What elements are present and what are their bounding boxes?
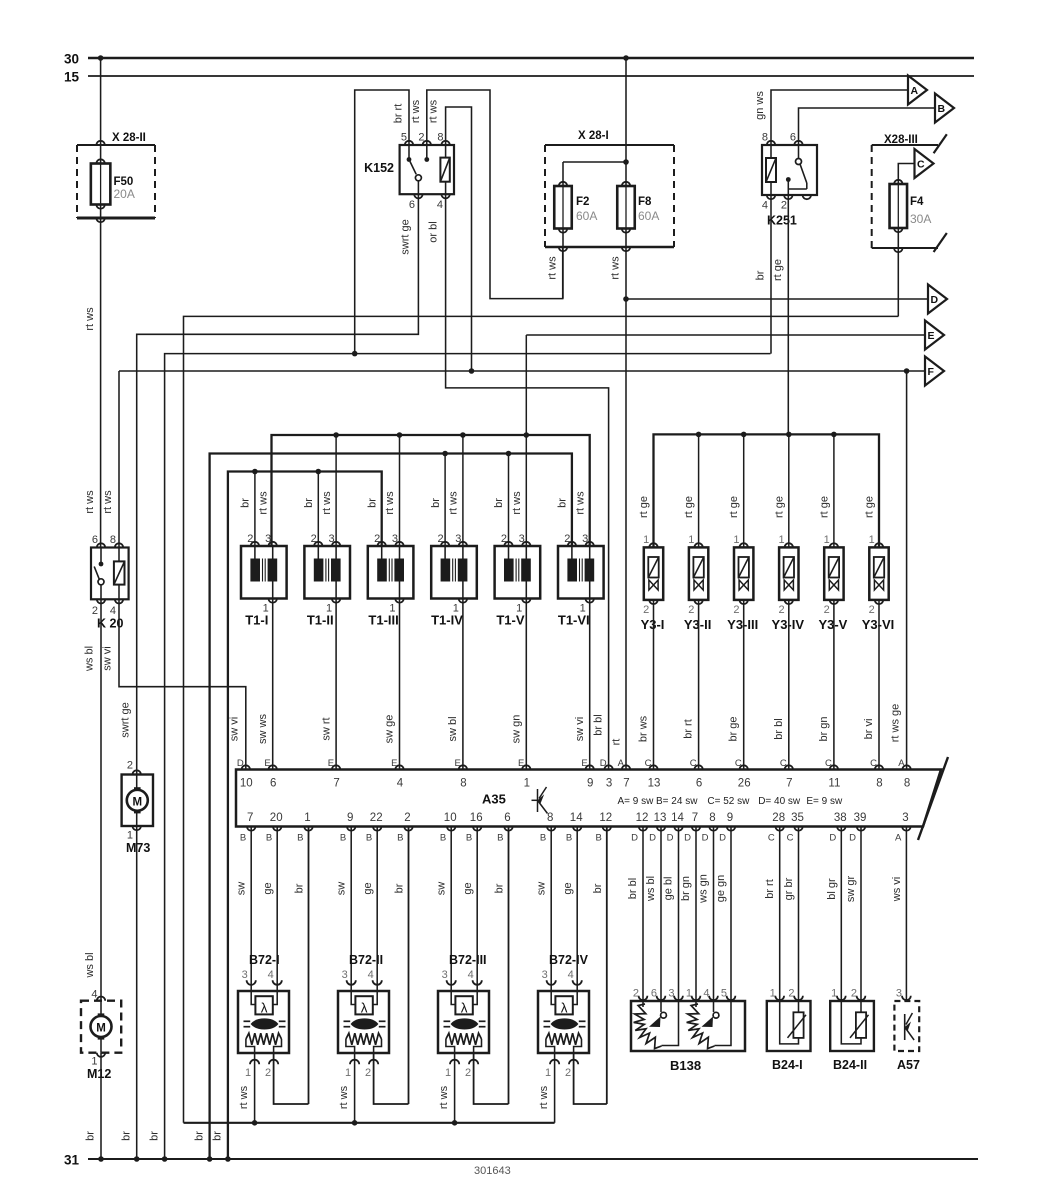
svg-text:1: 1 xyxy=(778,534,784,546)
svg-text:rt ws: rt ws xyxy=(84,490,96,514)
svg-text:br: br xyxy=(194,1131,206,1141)
svg-text:B: B xyxy=(297,833,303,844)
svg-text:20: 20 xyxy=(270,812,283,824)
svg-text:20A: 20A xyxy=(114,187,135,201)
svg-text:3: 3 xyxy=(606,778,612,790)
svg-text:rt ge: rt ge xyxy=(818,496,830,518)
svg-text:13: 13 xyxy=(654,812,667,824)
svg-text:4: 4 xyxy=(368,969,374,981)
svg-text:9: 9 xyxy=(727,812,733,824)
svg-text:ws gn: ws gn xyxy=(698,874,710,904)
svg-text:br: br xyxy=(149,1131,161,1141)
svg-text:T1-V: T1-V xyxy=(496,613,525,628)
svg-text:8: 8 xyxy=(762,132,768,144)
svg-text:E: E xyxy=(581,758,587,769)
svg-text:λ: λ xyxy=(261,1001,268,1016)
svg-text:br gn: br gn xyxy=(680,876,692,901)
svg-text:M12: M12 xyxy=(87,1067,111,1081)
svg-text:br rt: br rt xyxy=(393,104,405,124)
svg-text:2: 2 xyxy=(265,1067,271,1079)
svg-text:sw ge: sw ge xyxy=(384,715,396,744)
svg-text:8: 8 xyxy=(110,534,116,546)
svg-text:A: A xyxy=(895,833,902,844)
svg-text:br: br xyxy=(212,1131,224,1141)
svg-text:2: 2 xyxy=(311,533,317,545)
svg-text:12: 12 xyxy=(599,812,612,824)
svg-text:or bl: or bl xyxy=(428,221,440,242)
svg-text:1: 1 xyxy=(524,778,530,790)
svg-text:E: E xyxy=(391,758,397,769)
svg-text:T1-I: T1-I xyxy=(245,613,268,628)
svg-text:B: B xyxy=(340,833,346,844)
svg-text:2: 2 xyxy=(643,604,649,616)
svg-text:swrt ge: swrt ge xyxy=(120,702,132,737)
svg-text:1: 1 xyxy=(245,1067,251,1079)
svg-text:ge: ge xyxy=(262,882,274,894)
svg-text:br ge: br ge xyxy=(728,716,740,741)
svg-text:B: B xyxy=(497,833,503,844)
svg-text:D= 40 sw: D= 40 sw xyxy=(758,796,801,807)
svg-text:B: B xyxy=(938,103,946,115)
svg-text:X 28-I: X 28-I xyxy=(578,130,609,142)
svg-text:15: 15 xyxy=(64,70,80,85)
svg-text:1: 1 xyxy=(688,534,694,546)
svg-text:ws bl: ws bl xyxy=(84,952,96,978)
svg-text:301643: 301643 xyxy=(474,1165,511,1177)
svg-text:Y3-I: Y3-I xyxy=(641,617,665,632)
svg-text:39: 39 xyxy=(854,812,867,824)
svg-text:14: 14 xyxy=(671,812,684,824)
svg-text:2: 2 xyxy=(851,988,857,1000)
svg-text:1: 1 xyxy=(643,534,649,546)
svg-text:C: C xyxy=(768,833,775,844)
svg-text:35: 35 xyxy=(791,812,804,824)
svg-text:B: B xyxy=(366,833,372,844)
svg-text:sw vi: sw vi xyxy=(102,646,114,670)
svg-text:3: 3 xyxy=(902,812,908,824)
svg-text:6: 6 xyxy=(696,778,702,790)
svg-text:6: 6 xyxy=(409,199,415,211)
svg-text:B72-III: B72-III xyxy=(449,953,487,967)
svg-text:2: 2 xyxy=(437,533,443,545)
svg-text:B72-IV: B72-IV xyxy=(549,953,589,967)
svg-text:B: B xyxy=(595,833,601,844)
svg-text:E= 9 sw: E= 9 sw xyxy=(806,796,843,807)
svg-text:rt ge: rt ge xyxy=(772,259,784,281)
svg-text:D: D xyxy=(667,833,674,844)
svg-text:br: br xyxy=(592,883,604,893)
svg-text:8: 8 xyxy=(460,778,466,790)
svg-text:ws bl: ws bl xyxy=(645,876,657,902)
svg-text:E: E xyxy=(328,758,334,769)
svg-text:br: br xyxy=(755,270,767,280)
svg-text:B= 24 sw: B= 24 sw xyxy=(656,796,698,807)
svg-text:4: 4 xyxy=(703,988,709,1000)
svg-text:rt ws: rt ws xyxy=(410,99,422,123)
svg-text:C: C xyxy=(645,758,652,769)
svg-text:sw ws: sw ws xyxy=(257,714,269,744)
svg-text:8: 8 xyxy=(876,778,882,790)
svg-text:ws vi: ws vi xyxy=(891,877,903,902)
svg-text:B72-II: B72-II xyxy=(349,953,383,967)
svg-text:ge gn: ge gn xyxy=(715,875,727,903)
svg-text:2: 2 xyxy=(374,533,380,545)
svg-text:A= 9 sw: A= 9 sw xyxy=(618,796,655,807)
svg-text:C: C xyxy=(735,758,742,769)
svg-text:6: 6 xyxy=(92,534,98,546)
svg-text:4: 4 xyxy=(568,969,574,981)
svg-text:rt: rt xyxy=(611,739,623,746)
svg-text:38: 38 xyxy=(834,812,847,824)
svg-text:rt ge: rt ge xyxy=(864,496,876,518)
svg-text:3: 3 xyxy=(265,533,271,545)
svg-text:2: 2 xyxy=(565,1067,571,1079)
svg-text:sw: sw xyxy=(236,882,248,896)
svg-text:E: E xyxy=(264,758,270,769)
svg-text:7: 7 xyxy=(786,778,792,790)
svg-text:rt ws: rt ws xyxy=(574,491,586,515)
svg-text:gn ws: gn ws xyxy=(754,91,766,120)
svg-text:2: 2 xyxy=(869,604,875,616)
svg-text:D: D xyxy=(719,833,726,844)
svg-text:br: br xyxy=(294,883,306,893)
svg-text:B: B xyxy=(266,833,272,844)
svg-text:7: 7 xyxy=(623,778,629,790)
svg-text:7: 7 xyxy=(333,778,339,790)
svg-text:22: 22 xyxy=(370,812,383,824)
svg-text:6: 6 xyxy=(270,778,276,790)
svg-text:bl gr: bl gr xyxy=(826,878,838,900)
svg-text:60A: 60A xyxy=(638,209,659,223)
svg-text:Y3-V: Y3-V xyxy=(818,617,847,632)
svg-text:ge: ge xyxy=(462,882,474,894)
svg-text:3: 3 xyxy=(392,533,398,545)
svg-text:rt ws: rt ws xyxy=(610,256,622,280)
svg-text:10: 10 xyxy=(240,778,253,790)
svg-text:br gn: br gn xyxy=(818,716,830,741)
svg-text:swrt ge: swrt ge xyxy=(400,219,412,254)
svg-text:6: 6 xyxy=(790,132,796,144)
svg-text:1: 1 xyxy=(686,988,692,1000)
svg-text:sw rt: sw rt xyxy=(320,717,332,740)
svg-text:3: 3 xyxy=(442,969,448,981)
svg-text:rt ws: rt ws xyxy=(321,491,333,515)
svg-text:rt ws: rt ws xyxy=(511,491,523,515)
svg-text:4: 4 xyxy=(437,199,443,211)
svg-text:M: M xyxy=(133,797,143,809)
svg-text:2: 2 xyxy=(127,760,133,772)
svg-text:br ws: br ws xyxy=(638,715,650,742)
svg-text:D: D xyxy=(237,758,244,769)
svg-text:2: 2 xyxy=(633,988,639,1000)
svg-text:3: 3 xyxy=(582,533,588,545)
svg-text:7: 7 xyxy=(247,812,253,824)
svg-text:B24-II: B24-II xyxy=(833,1058,867,1072)
svg-text:rt ws: rt ws xyxy=(538,1085,550,1109)
svg-text:1: 1 xyxy=(545,1067,551,1079)
svg-text:rt ws: rt ws xyxy=(438,1085,450,1109)
svg-text:D: D xyxy=(631,833,638,844)
svg-text:2: 2 xyxy=(733,604,739,616)
svg-text:2: 2 xyxy=(824,604,830,616)
svg-text:sw vi: sw vi xyxy=(229,717,241,741)
svg-text:30A: 30A xyxy=(910,212,931,226)
svg-text:9: 9 xyxy=(347,812,353,824)
svg-text:5: 5 xyxy=(401,132,407,144)
svg-text:A: A xyxy=(898,758,905,769)
svg-text:br: br xyxy=(557,498,569,508)
svg-text:T1-IV: T1-IV xyxy=(431,613,463,628)
svg-text:3: 3 xyxy=(242,969,248,981)
svg-text:B24-I: B24-I xyxy=(772,1058,803,1072)
svg-text:E: E xyxy=(928,330,935,342)
svg-text:T1-III: T1-III xyxy=(368,613,398,628)
svg-text:11: 11 xyxy=(828,778,840,790)
svg-text:3: 3 xyxy=(542,969,548,981)
svg-text:B: B xyxy=(466,833,472,844)
svg-text:sw gr: sw gr xyxy=(845,876,857,903)
svg-text:sw gn: sw gn xyxy=(511,715,523,744)
svg-text:4: 4 xyxy=(268,969,274,981)
svg-text:2: 2 xyxy=(778,604,784,616)
svg-text:rt ge: rt ge xyxy=(638,496,650,518)
svg-text:2: 2 xyxy=(92,605,98,617)
svg-text:2: 2 xyxy=(247,533,253,545)
svg-text:ge bl: ge bl xyxy=(663,877,675,901)
svg-text:Y3-VI: Y3-VI xyxy=(862,617,895,632)
svg-text:31: 31 xyxy=(64,1153,80,1168)
svg-text:T1-VI: T1-VI xyxy=(558,613,590,628)
svg-text:sw: sw xyxy=(336,882,348,896)
svg-text:C: C xyxy=(780,758,787,769)
svg-text:2: 2 xyxy=(781,200,787,212)
svg-text:sw vi: sw vi xyxy=(574,717,586,741)
svg-text:λ: λ xyxy=(461,1001,468,1016)
svg-text:1: 1 xyxy=(824,534,830,546)
svg-text:C= 52 sw: C= 52 sw xyxy=(707,796,750,807)
svg-text:br bl: br bl xyxy=(593,714,605,735)
svg-text:2: 2 xyxy=(788,988,794,1000)
svg-text:λ: λ xyxy=(361,1001,368,1016)
svg-text:br rt: br rt xyxy=(683,719,695,739)
svg-text:30: 30 xyxy=(64,52,79,67)
svg-text:1: 1 xyxy=(127,830,133,842)
svg-text:D: D xyxy=(649,833,656,844)
svg-text:sw: sw xyxy=(536,882,548,896)
svg-text:1: 1 xyxy=(445,1067,451,1079)
svg-text:4: 4 xyxy=(762,200,768,212)
svg-text:7: 7 xyxy=(692,812,698,824)
svg-text:rt ws ge: rt ws ge xyxy=(890,704,902,743)
svg-text:E: E xyxy=(455,758,461,769)
svg-text:B: B xyxy=(540,833,546,844)
svg-text:D: D xyxy=(829,833,836,844)
svg-text:8: 8 xyxy=(547,812,553,824)
svg-text:rt ws: rt ws xyxy=(102,490,114,514)
svg-text:60A: 60A xyxy=(576,209,597,223)
svg-text:D: D xyxy=(849,833,856,844)
svg-text:D: D xyxy=(702,833,709,844)
svg-text:A: A xyxy=(618,758,625,769)
svg-text:ge: ge xyxy=(362,882,374,894)
svg-text:2: 2 xyxy=(365,1067,371,1079)
svg-text:rt ge: rt ge xyxy=(773,496,785,518)
svg-text:br: br xyxy=(493,498,505,508)
svg-text:br: br xyxy=(240,498,252,508)
svg-text:rt ws: rt ws xyxy=(428,99,440,123)
svg-text:br: br xyxy=(394,883,406,893)
svg-text:gr br: gr br xyxy=(783,877,795,900)
svg-text:br: br xyxy=(85,1131,97,1141)
svg-text:4: 4 xyxy=(468,969,474,981)
svg-text:B72-I: B72-I xyxy=(249,953,280,967)
svg-text:Y3-II: Y3-II xyxy=(684,617,711,632)
svg-text:br: br xyxy=(366,498,378,508)
svg-text:4: 4 xyxy=(110,605,116,617)
svg-text:E: E xyxy=(518,758,524,769)
svg-text:C: C xyxy=(870,758,877,769)
svg-text:12: 12 xyxy=(636,812,649,824)
svg-text:D: D xyxy=(600,758,607,769)
svg-text:rt ge: rt ge xyxy=(728,496,740,518)
svg-text:8: 8 xyxy=(904,778,910,790)
svg-text:3: 3 xyxy=(328,533,334,545)
svg-text:1: 1 xyxy=(733,534,739,546)
svg-text:rt ws: rt ws xyxy=(547,256,559,280)
svg-text:4: 4 xyxy=(397,778,404,790)
svg-text:2: 2 xyxy=(465,1067,471,1079)
svg-text:16: 16 xyxy=(470,812,483,824)
svg-text:br: br xyxy=(430,498,442,508)
svg-text:rt ws: rt ws xyxy=(238,1085,250,1109)
svg-text:C: C xyxy=(787,833,794,844)
svg-text:λ: λ xyxy=(561,1001,568,1016)
svg-text:2: 2 xyxy=(564,533,570,545)
svg-text:1: 1 xyxy=(770,988,776,1000)
svg-text:C: C xyxy=(917,159,925,171)
svg-text:rt ws: rt ws xyxy=(338,1085,350,1109)
svg-text:C: C xyxy=(825,758,832,769)
svg-text:3: 3 xyxy=(896,988,902,1000)
svg-text:5: 5 xyxy=(721,988,727,1000)
svg-text:2: 2 xyxy=(418,132,424,144)
svg-text:D: D xyxy=(931,294,939,306)
svg-text:B: B xyxy=(440,833,446,844)
svg-text:rt ws: rt ws xyxy=(384,491,396,515)
svg-text:ge: ge xyxy=(562,882,574,894)
svg-text:B138: B138 xyxy=(670,1058,701,1073)
svg-text:3: 3 xyxy=(455,533,461,545)
svg-text:br rt: br rt xyxy=(764,879,776,899)
svg-text:1: 1 xyxy=(345,1067,351,1079)
svg-text:T1-II: T1-II xyxy=(307,613,334,628)
svg-text:B: B xyxy=(397,833,403,844)
svg-text:F8: F8 xyxy=(638,196,652,208)
svg-text:Y3-IV: Y3-IV xyxy=(772,617,805,632)
svg-text:br vi: br vi xyxy=(863,719,875,740)
svg-text:X28-III: X28-III xyxy=(884,134,918,146)
svg-text:28: 28 xyxy=(772,812,785,824)
svg-text:A35: A35 xyxy=(482,792,506,807)
svg-text:F2: F2 xyxy=(576,196,589,208)
svg-text:br: br xyxy=(303,498,315,508)
svg-text:8: 8 xyxy=(437,132,443,144)
svg-text:F4: F4 xyxy=(910,196,924,208)
svg-text:1: 1 xyxy=(91,1056,97,1068)
svg-text:13: 13 xyxy=(648,778,661,790)
svg-text:2: 2 xyxy=(688,604,694,616)
svg-text:rt ws: rt ws xyxy=(448,491,460,515)
svg-text:10: 10 xyxy=(444,812,457,824)
svg-text:3: 3 xyxy=(519,533,525,545)
svg-text:A57: A57 xyxy=(897,1058,920,1072)
svg-text:br: br xyxy=(494,883,506,893)
svg-text:3: 3 xyxy=(342,969,348,981)
svg-text:A: A xyxy=(911,85,919,97)
svg-text:2: 2 xyxy=(501,533,507,545)
svg-text:D: D xyxy=(684,833,691,844)
svg-text:1: 1 xyxy=(869,534,875,546)
svg-text:3: 3 xyxy=(668,988,674,1000)
svg-text:X 28-II: X 28-II xyxy=(112,132,146,144)
svg-text:6: 6 xyxy=(504,812,510,824)
svg-text:sw: sw xyxy=(436,882,448,896)
svg-text:B: B xyxy=(240,833,246,844)
svg-text:rt ge: rt ge xyxy=(683,496,695,518)
svg-text:1: 1 xyxy=(831,988,837,1000)
svg-text:9: 9 xyxy=(587,778,593,790)
svg-text:br bl: br bl xyxy=(627,878,639,899)
svg-text:M73: M73 xyxy=(126,841,150,855)
svg-text:26: 26 xyxy=(738,778,751,790)
svg-text:M: M xyxy=(96,1023,106,1035)
svg-text:sw bl: sw bl xyxy=(447,716,459,741)
svg-text:B: B xyxy=(566,833,572,844)
svg-text:br: br xyxy=(121,1131,133,1141)
svg-text:rt ws: rt ws xyxy=(84,307,96,331)
svg-text:Y3-III: Y3-III xyxy=(727,617,758,632)
svg-text:14: 14 xyxy=(570,812,583,824)
svg-text:8: 8 xyxy=(709,812,715,824)
svg-text:4: 4 xyxy=(91,989,97,1001)
svg-text:6: 6 xyxy=(651,988,657,1000)
svg-text:C: C xyxy=(690,758,697,769)
svg-text:K152: K152 xyxy=(364,161,394,175)
svg-text:ws bl: ws bl xyxy=(84,646,96,672)
svg-text:F: F xyxy=(928,366,935,378)
svg-text:rt ws: rt ws xyxy=(257,491,269,515)
svg-text:br bl: br bl xyxy=(773,718,785,739)
svg-text:2: 2 xyxy=(404,812,410,824)
svg-text:1: 1 xyxy=(304,812,310,824)
